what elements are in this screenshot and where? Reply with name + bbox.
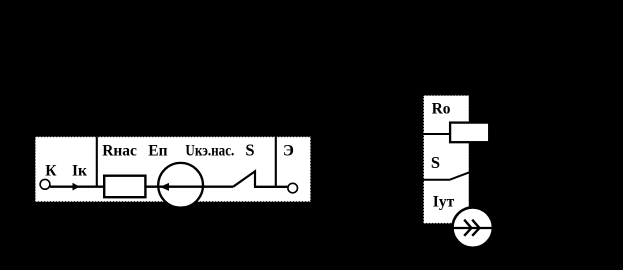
divider between K section and middle section: [96, 137, 98, 187]
svg-text:Uкэ.нас.: Uкэ.нас.: [185, 142, 234, 159]
divider between middle section and E section: [275, 137, 277, 187]
left figure white panel: [35, 137, 310, 202]
terminal K circle: [40, 179, 50, 189]
svg-text:Э: Э: [283, 143, 294, 160]
right figure white strip: [424, 95, 470, 223]
svg-text:Iут: Iут: [433, 193, 455, 210]
chevron arrow 1 of current source: [464, 220, 471, 236]
switch S right figure: [424, 172, 470, 180]
stub wire to resistor Rо: [424, 133, 451, 135]
svg-text:S: S: [245, 140, 254, 159]
svg-text:Rо: Rо: [432, 101, 451, 118]
line through current source: [451, 227, 494, 229]
vertical wire right figure: [469, 95, 471, 207]
voltage source Eп circle: [158, 163, 203, 208]
svg-text:Iк: Iк: [72, 162, 87, 179]
arrow inside Eп source pointing left: [160, 183, 169, 191]
switch S blade: [233, 171, 255, 186]
svg-text:К: К: [45, 162, 57, 179]
svg-text:Еп: Еп: [148, 142, 167, 159]
resistor Rо box: [450, 123, 489, 143]
wire right segment switch to terminal Э: [254, 186, 288, 188]
resistor Rнас box: [104, 176, 145, 198]
current source Iут circle: [453, 207, 493, 247]
arrow Iк direction on wire: [73, 183, 80, 191]
svg-text:S: S: [431, 153, 440, 172]
chevron arrow 2 of current source: [472, 220, 479, 236]
terminal Э circle: [288, 183, 298, 193]
svg-text:Rнас: Rнас: [102, 142, 137, 159]
wire left segment K to switch: [50, 185, 233, 187]
